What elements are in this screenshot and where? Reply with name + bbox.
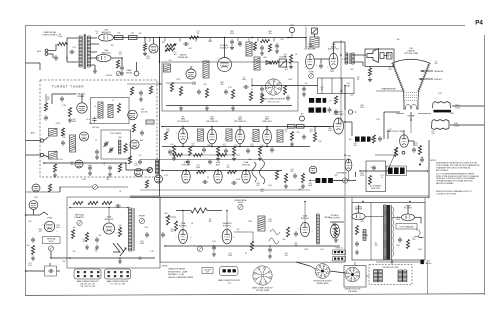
resistor R47	[313, 133, 316, 142]
svg-text:GRID NO.2: GRID NO.2	[434, 79, 442, 81]
wire ant links	[44, 137, 49, 141]
svg-text:6J6 OSC: 6J6 OSC	[141, 111, 149, 113]
svg-text:.1: .1	[59, 189, 60, 191]
svg-text:R75: R75	[250, 144, 253, 146]
svg-text:L42: L42	[354, 143, 357, 145]
transformer T9 RF	[98, 102, 103, 118]
wire notes separator	[428, 140, 430, 198]
svg-text:SOUND DET: SOUND DET	[178, 57, 189, 59]
ground sif 3	[231, 106, 235, 111]
resistor R46	[290, 132, 293, 141]
ground extra2	[275, 49, 279, 54]
transformer T8b	[277, 130, 283, 142]
svg-text:BASE CONNECTIONS FOR: BASE CONNECTIONS FOR	[262, 98, 286, 101]
svg-text:R33: R33	[166, 129, 169, 131]
wire V8A lead	[190, 66, 192, 69]
capacitor C43	[246, 148, 250, 154]
svg-text:COIL TUNING: COIL TUNING	[110, 133, 122, 135]
resistor R83	[102, 201, 112, 204]
resistor R33	[205, 89, 208, 98]
transformer T8	[253, 130, 259, 142]
coil L23	[115, 36, 124, 40]
svg-text:VIDEO DET: VIDEO DET	[262, 121, 273, 123]
svg-text:R70: R70	[72, 119, 75, 121]
wire audio B+ vert	[340, 40, 342, 125]
svg-text:R80: R80	[220, 82, 223, 84]
svg-text:100: 100	[162, 42, 165, 44]
transformer T13 stabilizer	[258, 216, 265, 231]
svg-text:.0047: .0047	[298, 189, 302, 191]
svg-text:.005: .005	[82, 241, 85, 243]
tube V10 2nd video IF	[207, 129, 216, 144]
wire bplus top	[305, 27, 307, 38]
ground IF2	[216, 156, 220, 161]
svg-text:L74: L74	[381, 175, 384, 177]
resistor R24	[190, 36, 199, 39]
terminal strip TS1	[333, 250, 346, 254]
socket base connections B	[105, 269, 131, 279]
svg-text:SYNC SEP: SYNC SEP	[181, 164, 191, 166]
coil block L34	[394, 168, 399, 175]
svg-text:MOUNT: MOUNT	[126, 73, 132, 75]
tube V9 1st video IF	[178, 129, 187, 144]
svg-text:LINEARITY: LINEARITY	[75, 216, 86, 219]
wire hv top	[351, 198, 353, 203]
box thermistor	[45, 266, 57, 276]
wire left IF coupling	[127, 83, 162, 85]
wire IF tube leads	[182, 127, 184, 129]
coil block L31b	[322, 178, 327, 183]
svg-text:.005: .005	[388, 69, 391, 71]
wire interlock	[26, 191, 60, 193]
tube V10B noise	[134, 168, 142, 176]
svg-text:R45: R45	[360, 105, 363, 107]
svg-text:R35: R35	[138, 257, 141, 259]
wire vbox bus	[70, 207, 128, 209]
svg-text:6AQ5 6T8: 6AQ5 6T8	[101, 52, 111, 55]
capacitor C28	[319, 63, 323, 69]
svg-text:3RD VIDEO IF: 3RD VIDEO IF	[234, 121, 247, 123]
svg-text:.1: .1	[166, 71, 167, 73]
pot height control	[139, 218, 144, 223]
wire tp3 lead	[291, 33, 293, 38]
resistor R93	[174, 221, 177, 231]
svg-text:.005: .005	[353, 145, 356, 147]
capacitor C55	[88, 165, 92, 171]
wire left margin drop	[26, 62, 40, 64]
svg-text:OSC 6J6: OSC 6J6	[92, 127, 99, 129]
speaker LS1 box	[365, 49, 394, 67]
svg-text:L89: L89	[285, 129, 288, 131]
svg-text:C11: C11	[73, 147, 76, 149]
resistor R84	[71, 230, 74, 239]
resistor R67	[301, 174, 304, 183]
coil block L35	[400, 168, 405, 175]
svg-text:.01: .01	[389, 131, 391, 133]
svg-text:C19: C19	[284, 67, 287, 69]
transformer T1 core	[83, 34, 85, 69]
resistor R92	[166, 215, 169, 225]
svg-text:2.2M: 2.2M	[342, 59, 346, 61]
tube V16B hor out	[300, 222, 309, 236]
transformer T6	[198, 129, 204, 141]
wire diag restorer	[387, 147, 398, 172]
deflection yoke winding left	[374, 270, 378, 282]
svg-text:HEIGHT: HEIGHT	[139, 216, 145, 218]
svg-text:DEFLECTION YOKE: DEFLECTION YOKE	[383, 267, 400, 269]
svg-text:(PIN VIEW): (PIN VIEW)	[348, 291, 357, 293]
svg-text:2ND VIDEO IF: 2ND VIDEO IF	[206, 121, 219, 123]
coil L3 osc	[119, 140, 121, 154]
resistor R62d	[218, 153, 227, 156]
svg-text:L5: L5	[243, 77, 245, 79]
svg-text:2.2M: 2.2M	[144, 227, 148, 229]
capacitor C61c	[208, 159, 212, 165]
resistor R85	[85, 233, 88, 242]
resistor R57	[118, 164, 121, 172]
capacitor C95	[355, 241, 359, 247]
capacitor C64	[293, 173, 297, 179]
capacitor C85	[48, 269, 54, 273]
wire right hv	[427, 262, 429, 294]
svg-text:C29: C29	[118, 52, 121, 54]
resistor R121	[130, 87, 133, 95]
wire crt base down	[410, 112, 412, 120]
svg-text:L25: L25	[131, 33, 134, 35]
capacitor C31	[197, 89, 201, 95]
capacitor C62	[202, 180, 208, 184]
capacitor C45	[302, 134, 306, 140]
box deflection yoke (dashed)	[369, 265, 412, 285]
svg-text:R8: R8	[209, 219, 211, 221]
svg-text:SYNC INV: SYNC INV	[242, 164, 251, 166]
svg-text:PICTURE TUBE: PICTURE TUBE	[404, 53, 419, 55]
svg-text:P4: P4	[475, 20, 483, 27]
tube V5 6AU6	[218, 58, 232, 72]
capacitor C121	[139, 90, 143, 96]
coil block L33	[388, 168, 393, 175]
svg-text:HOLD: HOLD	[49, 241, 55, 243]
capacitor C83	[145, 232, 149, 238]
ground R56	[53, 173, 57, 178]
node tp small	[402, 151, 405, 154]
svg-text:R40: R40	[330, 69, 333, 71]
speaker plug	[387, 53, 393, 60]
coil L24 trap	[164, 64, 171, 72]
ion trap crown	[404, 103, 406, 110]
resistor R65	[275, 171, 278, 180]
coil block L12	[309, 108, 315, 113]
peaking coil L15	[288, 125, 296, 129]
wire audio v	[288, 37, 306, 39]
svg-text:L32: L32	[291, 169, 294, 171]
wire IF plate bus	[162, 126, 330, 128]
svg-text:33: 33	[207, 177, 209, 179]
svg-text:C88: C88	[38, 229, 41, 231]
capacitor C34	[286, 95, 290, 101]
tube V15 vert hold tube	[44, 221, 54, 231]
tube V2B osc2	[128, 110, 138, 120]
svg-text:R87: R87	[386, 53, 389, 55]
capacitor C33	[243, 85, 249, 89]
wire bright vert	[387, 130, 389, 139]
wire sound v1	[159, 38, 161, 63]
wire yoke out	[391, 260, 393, 263]
coil block L19	[367, 137, 370, 142]
coil blocks peaking box	[387, 166, 407, 176]
svg-text:L27: L27	[83, 239, 86, 241]
coil block L9	[309, 98, 314, 103]
svg-text:.1: .1	[237, 231, 238, 233]
svg-text:L15: L15	[96, 31, 99, 33]
svg-text:2.2M: 2.2M	[62, 105, 66, 107]
diode CR1	[266, 61, 270, 65]
wire IF agc bus	[140, 159, 345, 161]
svg-text:WITH VTVM: WITH VTVM	[371, 188, 380, 190]
svg-text:L57: L57	[174, 52, 177, 54]
ground vert1	[85, 245, 89, 250]
pot horizontal hold	[238, 204, 243, 209]
ground sif 1	[179, 106, 183, 111]
svg-text:DAMPER: DAMPER	[355, 208, 363, 211]
wire section divider double	[130, 195, 429, 197]
svg-text:RF AMP: RF AMP	[78, 95, 85, 98]
wire tuner v2	[45, 94, 47, 103]
svg-text:C61: C61	[222, 144, 225, 146]
capacitor C46	[260, 86, 264, 92]
svg-text:VERT OUT: VERT OUT	[104, 219, 114, 221]
wire agc vert2	[251, 78, 253, 86]
node test point TP1	[134, 71, 139, 76]
resistor R29b	[268, 44, 271, 52]
wire border left	[25, 26, 27, 295]
svg-text:L22: L22	[237, 229, 240, 231]
transformer T10 RF	[108, 105, 113, 118]
svg-text:12V 12B4 TUBES: 12V 12B4 TUBES	[256, 290, 270, 292]
svg-text:L49: L49	[229, 253, 232, 255]
svg-text:C66: C66	[192, 82, 195, 84]
svg-text:L79: L79	[197, 165, 200, 167]
svg-text:.02: .02	[109, 107, 111, 109]
coil block L13	[316, 108, 322, 113]
capacitor C63	[231, 181, 237, 185]
waveform sync 2	[260, 160, 265, 184]
wire hor bottom bus	[165, 245, 340, 247]
wire sif bottom	[166, 105, 292, 107]
resistor R98	[406, 240, 409, 249]
svg-text:C68: C68	[260, 189, 263, 191]
resistor R94	[286, 227, 289, 237]
box sound IF section	[162, 62, 298, 111]
ground C103	[120, 71, 124, 76]
svg-text:C46: C46	[308, 183, 311, 185]
svg-text:.0047: .0047	[418, 249, 422, 251]
wire b+ left vert	[159, 38, 161, 197]
wire defl links	[330, 271, 345, 273]
wire sawtooth 1	[113, 243, 120, 252]
wire IF cathode bus	[162, 146, 310, 148]
ground hor1	[212, 252, 216, 257]
svg-text:220: 220	[111, 45, 114, 47]
svg-text:2.2M: 2.2M	[208, 41, 212, 43]
wire agc line	[252, 85, 318, 87]
coil block L32	[328, 178, 333, 183]
svg-text:FOCUS: FOCUS	[106, 75, 113, 77]
svg-text:.047: .047	[118, 54, 121, 56]
deflection yoke bar	[434, 110, 452, 113]
svg-text:.005: .005	[173, 54, 176, 56]
svg-text:R65: R65	[146, 169, 149, 171]
svg-text:HOLD: HOLD	[238, 202, 244, 204]
deflection yoke coil lower	[432, 120, 449, 122]
wire sync bus	[162, 170, 282, 172]
wire contrast link	[310, 180, 316, 182]
resistor R63	[197, 170, 206, 173]
svg-text:R1: R1	[59, 34, 61, 36]
ground C53	[95, 155, 99, 160]
resistor R62b	[174, 153, 183, 156]
svg-text:ANT.: ANT.	[31, 132, 35, 135]
wire T4 to speaker	[354, 54, 366, 56]
coil block L18	[361, 137, 366, 142]
svg-text:L54: L54	[321, 87, 324, 89]
ground C24	[230, 45, 234, 50]
svg-text:COLOUR: COLOUR	[204, 269, 212, 271]
box HV section	[352, 203, 425, 261]
svg-text:R13: R13	[56, 225, 59, 227]
tube V17 damper	[352, 213, 365, 220]
svg-text:150: 150	[89, 123, 92, 125]
svg-text:C31: C31	[396, 217, 399, 219]
box mixer grid (inner)	[91, 98, 130, 124]
svg-text:R18: R18	[256, 183, 259, 185]
svg-text:TERM. 15: TERM. 15	[335, 248, 342, 250]
CRT V18 side ticks	[391, 62, 393, 65]
wire disc arrow	[165, 44, 176, 52]
capacitor C61	[138, 159, 142, 165]
box deflection plug	[344, 266, 366, 288]
resistor R62c	[194, 153, 203, 156]
pot tone pot	[312, 28, 318, 34]
wire vhold	[50, 251, 52, 258]
wire sync top parts	[170, 154, 240, 156]
svg-text:100: 100	[397, 39, 400, 41]
ground R21	[143, 51, 147, 56]
transformer T1 secondary	[87, 36, 90, 67]
wire video bus vert	[344, 86, 346, 197]
resistor R61	[128, 156, 131, 164]
tube V16A hor osc	[222, 229, 232, 244]
svg-text:.001: .001	[284, 69, 287, 71]
tube V2B mixer	[130, 140, 139, 149]
wire vert bottom bus	[70, 257, 155, 259]
svg-text:CAPACITOR VALUES: CAPACITOR VALUES	[168, 268, 186, 271]
svg-text:C36: C36	[268, 219, 271, 221]
svg-text:R7 4.7K: R7 4.7K	[57, 159, 64, 161]
wire jack leads	[48, 50, 56, 52]
transformer T2 sound disc	[246, 42, 252, 56]
wire tuner top	[52, 93, 76, 95]
resistor R81	[73, 201, 83, 204]
svg-text:L64: L64	[333, 223, 336, 225]
ground IF3	[232, 156, 236, 161]
coil L24	[146, 120, 154, 124]
ground IF5	[290, 142, 294, 147]
box do not measure	[396, 224, 417, 230]
svg-text:CONTROL SETTINGS.: CONTROL SETTINGS.	[436, 193, 457, 195]
tube V13A sync sep	[155, 175, 163, 183]
wire sif mid	[166, 82, 196, 84]
capacitor trimmer 1	[104, 141, 108, 147]
resistor R123	[132, 124, 135, 132]
svg-text:L47: L47	[192, 143, 195, 145]
capacitor C53	[95, 149, 99, 155]
wire TP1 lead	[136, 62, 138, 71]
svg-text:C15: C15	[139, 155, 142, 157]
svg-text:L-26: L-26	[227, 283, 230, 285]
node phono jack J1	[45, 49, 48, 52]
resistor R91 big zigzag	[191, 208, 207, 213]
svg-text:R3: R3	[375, 243, 377, 245]
capacitor C101	[54, 55, 58, 61]
box coil tuning	[101, 130, 131, 159]
svg-text:L4: L4	[94, 106, 96, 108]
svg-text:.01: .01	[381, 177, 383, 179]
tube V7B 6AQ5 output	[329, 53, 338, 69]
wire vert bias	[60, 186, 93, 188]
tube V14B	[345, 159, 352, 171]
resistor R122	[149, 86, 152, 94]
tube V12 video det	[263, 129, 272, 143]
svg-text:L59: L59	[389, 129, 392, 131]
coil block L10	[316, 98, 321, 103]
wire spk drop	[369, 67, 371, 69]
box vertical hold	[43, 237, 61, 244]
ground speaker	[368, 77, 372, 82]
svg-text:L2: L2	[435, 61, 437, 63]
capacitor C40a	[168, 149, 172, 155]
ground vert2	[95, 245, 99, 250]
CRT V18 envelope	[393, 59, 430, 102]
svg-text:R43: R43	[146, 56, 149, 58]
svg-text:33: 33	[339, 251, 341, 253]
capacitor C51	[93, 117, 97, 123]
ground hor2	[268, 254, 272, 259]
resistor R66	[284, 174, 287, 183]
ground C47	[302, 92, 306, 97]
pot drive control	[197, 246, 202, 251]
capacitor C24	[230, 39, 234, 45]
svg-text:100: 100	[73, 227, 76, 229]
svg-text:C73: C73	[414, 143, 417, 145]
tube V16	[400, 135, 409, 147]
capacitor C57	[44, 115, 48, 121]
wire video to crt	[344, 121, 353, 123]
resistor R72	[368, 176, 371, 185]
svg-text:C14: C14	[309, 129, 312, 131]
svg-text:R23: R23	[70, 162, 73, 164]
coil block L17	[355, 137, 360, 142]
capacitor C21	[183, 42, 189, 46]
svg-text:TP2: TP2	[354, 112, 357, 114]
ground T1	[93, 69, 97, 74]
svg-text:C63: C63	[284, 253, 287, 255]
svg-text:220: 220	[29, 221, 32, 223]
transformer T7	[226, 129, 232, 141]
capacitor C71	[412, 147, 416, 153]
resistor R56	[53, 164, 56, 172]
tube V15B vert out	[103, 223, 114, 234]
